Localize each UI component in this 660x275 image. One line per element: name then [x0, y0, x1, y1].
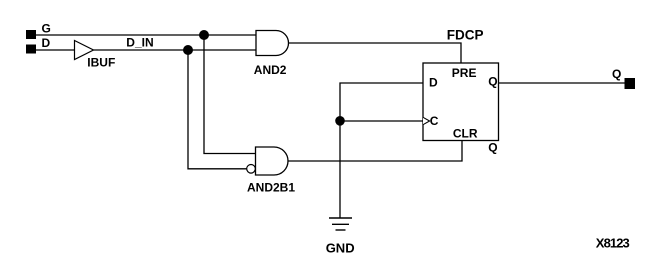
input pin G — [26, 30, 36, 39]
svg-text:Q: Q — [488, 140, 497, 154]
svg-text:CLR: CLR — [453, 126, 478, 140]
wire AND2B1 output to FDCP CLR — [288, 141, 462, 162]
flip-flop FDCP — [423, 63, 499, 141]
svg-text:X8123: X8123 — [596, 235, 630, 250]
junction dot on D_IN net — [183, 45, 193, 55]
junction dot on G net — [199, 30, 209, 40]
svg-text:AND2B1: AND2B1 — [247, 181, 295, 195]
svg-text:FDCP: FDCP — [447, 27, 484, 42]
inversion bubble on AND2B1 input — [247, 165, 256, 174]
wire FDCP Q output — [499, 82, 626, 84]
clock triangle on C pin — [423, 117, 430, 124]
ground GND — [329, 218, 352, 230]
wire G net branch to AND2B1 top input — [204, 35, 256, 154]
wire D_IN branch to AND2B1 inverted input — [188, 50, 247, 169]
svg-text:D_IN: D_IN — [126, 36, 153, 50]
gate AND2B1 — [256, 147, 289, 175]
svg-text:AND2: AND2 — [254, 63, 287, 77]
input pin D — [26, 45, 36, 54]
buffer IBUF — [75, 41, 94, 60]
svg-text:D: D — [42, 36, 51, 50]
svg-text:D: D — [429, 75, 438, 89]
wire D pin to IBUF — [36, 49, 75, 51]
svg-text:C: C — [430, 114, 439, 128]
output pin Q — [625, 78, 636, 89]
wire FDCP D input — [340, 83, 423, 218]
wire net D_IN horizontal — [94, 49, 257, 51]
svg-text:Q: Q — [488, 75, 497, 89]
gate AND2 — [256, 31, 289, 56]
svg-text:PRE: PRE — [452, 66, 477, 80]
svg-text:Q: Q — [612, 67, 621, 81]
junction dot on D/C/GND net — [335, 116, 345, 126]
wire AND2 output to FDCP PRE — [289, 43, 462, 63]
svg-text:GND: GND — [326, 240, 355, 255]
wire net G horizontal — [36, 34, 256, 36]
svg-text:IBUF: IBUF — [87, 56, 115, 70]
wire FDCP C input — [340, 120, 423, 122]
svg-text:G: G — [42, 22, 51, 36]
